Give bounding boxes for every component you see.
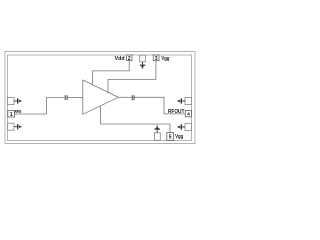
net label RFIN (15, 109, 22, 114)
wire amplifier output to C2 (118, 96, 131, 98)
chip outline inner rectangle (8, 55, 192, 141)
wire Vgg: pin3 to amplifier top edge (108, 61, 156, 94)
pin 5 box (167, 133, 174, 141)
net label Vdd (115, 56, 125, 62)
pad P-RT (right top ground pad) (185, 98, 192, 105)
via ground symbol at pad P-RB (178, 124, 185, 129)
svg-text:Vdd: Vdd (115, 56, 125, 62)
svg-text:4: 4 (187, 112, 190, 118)
pad P-LT (left top ground pad) (8, 98, 15, 105)
pad P-LB (left bottom ground pad) (8, 123, 15, 130)
pin 2 box (127, 55, 133, 62)
wire amplifier bottom bias to pin5 (100, 106, 170, 133)
pad P-T (top center ground pad) (140, 55, 146, 62)
op-amp U1 amplifier triangle (83, 80, 119, 114)
wire C2 to pin4 RFOUT (135, 97, 186, 114)
chip outline outer rectangle (5, 52, 195, 144)
via ground symbol at pad P-LB (14, 124, 21, 129)
via ground symbol at pad P-T (140, 62, 145, 69)
capacitor C1 (input DC block) (65, 95, 67, 100)
via ground symbol at pad P-LT (14, 98, 21, 103)
net label Vgg (top) (161, 56, 169, 62)
wire Vdd: pin2 to amplifier top edge (93, 61, 130, 86)
svg-text:RFIN: RFIN (15, 109, 22, 114)
svg-text:Vgg: Vgg (161, 56, 169, 62)
pin 1 box (8, 111, 15, 118)
pad P-B (bottom ground pad) (154, 133, 160, 141)
capacitor C2 (output DC block) (132, 95, 134, 100)
wire RFIN input: pin1 to C1 (14, 97, 64, 114)
via ground symbol at pad P-B (155, 125, 160, 133)
svg-text:Vgg: Vgg (175, 134, 183, 140)
svg-text:3: 3 (155, 56, 158, 62)
svg-text:RFOUT: RFOUT (168, 109, 184, 115)
svg-text:5: 5 (169, 135, 172, 141)
svg-text:1: 1 (10, 112, 13, 118)
pin 3 box (153, 55, 159, 62)
net label Vgg (bottom) (175, 134, 183, 140)
pin 4 box (185, 111, 191, 118)
net label RFOUT (168, 109, 184, 115)
wire C1 to amplifier input (68, 96, 83, 98)
via ground symbol at pad P-RT (178, 98, 185, 103)
pad P-RB (right bottom ground pad) (185, 124, 192, 131)
